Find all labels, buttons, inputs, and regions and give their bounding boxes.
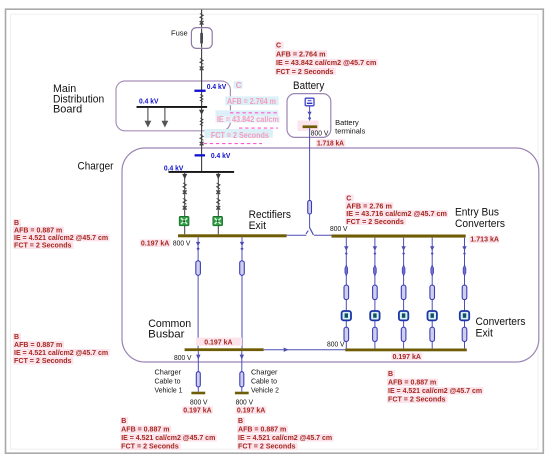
svg-text:B: B	[14, 334, 19, 341]
svg-text:0.197 kA: 0.197 kA	[237, 408, 265, 415]
svg-text:AFB = 2.764 m: AFB = 2.764 m	[276, 51, 326, 58]
0.197 kA label (common busbar)	[196, 338, 242, 346]
svg-text:C: C	[276, 43, 281, 50]
arc flash label B (left upper)	[13, 219, 110, 250]
svg-text:800 V: 800 V	[311, 128, 329, 137]
battery feed wire down into charger box	[309, 128, 311, 200]
rectifier U1 (green charger icon)	[179, 217, 189, 235]
bus tick 0.4 kV (charger incomer)	[195, 154, 205, 156]
battery icon	[305, 98, 314, 106]
arc flash label C (entry bus)	[345, 194, 448, 226]
svg-text:IE = 43.842 cal/cm2 @45.7 cm: IE = 43.842 cal/cm2 @45.7 cm	[276, 60, 376, 67]
svg-text:B: B	[388, 371, 393, 378]
svg-text:0.4 kV: 0.4 kV	[207, 82, 227, 91]
svg-text:AFB = 2.76 m: AFB = 2.76 m	[346, 203, 392, 210]
0.197 kA label (converters exit bus)	[391, 353, 422, 361]
svg-text:800 V: 800 V	[330, 224, 348, 233]
svg-text:0.197 kA: 0.197 kA	[141, 241, 169, 248]
bus tick 0.4 kV (MDB incomer)	[194, 90, 205, 92]
ghost drag label (faded arc-flash label C with selection dashes)	[204, 81, 280, 144]
vehicle 1 terminal bar	[191, 392, 205, 395]
svg-text:Charger: Charger	[78, 161, 114, 173]
svg-text:FCT = 2 Seconds: FCT = 2 Seconds	[121, 444, 179, 451]
vehicle cable 2	[240, 351, 244, 392]
svg-text:0.4 kV: 0.4 kV	[139, 96, 159, 105]
svg-text:Rectifiers: Rectifiers	[249, 209, 292, 221]
svg-text:IE = 4.521 cal/cm2 @45.7 cm: IE = 4.521 cal/cm2 @45.7 cm	[388, 388, 482, 395]
Entry busbar	[332, 235, 466, 238]
Main Distribution Board box	[116, 81, 230, 131]
svg-text:Vehicle 1: Vehicle 1	[155, 386, 183, 395]
battery wire to terminals	[309, 106, 311, 126]
svg-text:IE = 4.521 cal/cm2 @45.7 cm: IE = 4.521 cal/cm2 @45.7 cm	[14, 350, 108, 357]
common bus feed cable 1	[196, 237, 201, 348]
svg-text:Battery: Battery	[293, 80, 325, 92]
Common busbar	[185, 348, 264, 351]
pink highlight behind battery terminal	[298, 121, 319, 132]
0.197 kA label (vehicle 1)	[182, 406, 213, 414]
svg-text:1.718 kA: 1.718 kA	[317, 140, 344, 147]
svg-text:800 V: 800 V	[174, 353, 192, 362]
arc flash label B (left lower)	[13, 333, 110, 365]
svg-text:IE = 4.521 cal/cm2 @45.7 cm: IE = 4.521 cal/cm2 @45.7 cm	[121, 435, 215, 442]
svg-text:Fuse: Fuse	[171, 29, 188, 38]
fuse F1 box	[191, 28, 212, 49]
cable mark between MDB and charger box	[200, 135, 204, 146]
battery feed fuse	[308, 200, 312, 214]
svg-text:800 V: 800 V	[327, 340, 345, 349]
svg-text:Charger: Charger	[251, 368, 278, 377]
svg-text:Converters: Converters	[476, 316, 527, 328]
svg-text:0.197 kA: 0.197 kA	[393, 354, 421, 361]
load feeder arrow below MDB bus (on main line)	[199, 110, 204, 115]
cable mark in MDB lower	[200, 118, 203, 126]
battery 1.718 kA label	[316, 139, 346, 147]
converter branch 2	[370, 238, 379, 349]
svg-text:IE = 4.521 cal/cm2 @45.7 cm: IE = 4.521 cal/cm2 @45.7 cm	[238, 435, 332, 442]
0.197 kA label (rectifiers exit)	[140, 239, 171, 247]
svg-text:AFB = 0.887 m: AFB = 0.887 m	[388, 380, 436, 387]
svg-text:1.713 kA: 1.713 kA	[470, 237, 499, 244]
svg-text:0.4 kV: 0.4 kV	[211, 151, 231, 160]
rectifier U2 (green charger icon)	[213, 217, 223, 235]
svg-text:0.4 kV: 0.4 kV	[164, 163, 184, 172]
svg-text:FCT = 2 Seconds: FCT = 2 Seconds	[276, 69, 334, 76]
svg-text:AFB = 2.764 m: AFB = 2.764 m	[227, 97, 276, 106]
arc flash label B (bottom left)	[120, 417, 217, 451]
svg-text:Vehicle 2: Vehicle 2	[251, 386, 279, 395]
common bus feed cable 2	[240, 237, 245, 348]
svg-text:IE = 4.521 cal/cm2 @45.7 cm: IE = 4.521 cal/cm2 @45.7 cm	[14, 235, 108, 242]
charger subsystem enclosure box	[122, 148, 539, 362]
svg-text:Cable to: Cable to	[251, 377, 277, 386]
MDB load arrow 1	[145, 108, 152, 128]
rectifier cable 2	[216, 173, 221, 217]
charger input busbar 0.4 kV	[169, 171, 235, 173]
svg-text:AFB = 0.887 m: AFB = 0.887 m	[238, 427, 286, 434]
svg-text:AFB = 0.887 m: AFB = 0.887 m	[121, 427, 169, 434]
svg-text:AFB = 0.887 m: AFB = 0.887 m	[14, 342, 62, 349]
svg-text:IE = 43.842 cal/cm: IE = 43.842 cal/cm	[217, 115, 279, 124]
cable mark inside MDB	[200, 95, 203, 103]
svg-text:FCT = 2 Seconds: FCT = 2 Seconds	[238, 444, 296, 451]
1.713 kA label	[469, 236, 499, 244]
arc flash label B (right)	[387, 370, 484, 404]
svg-text:Busbar: Busbar	[148, 328, 185, 340]
rectifier cable 1	[182, 173, 187, 217]
svg-text:FCT = 2 Seconds: FCT = 2 Seconds	[211, 131, 269, 140]
svg-text:B: B	[238, 418, 243, 425]
svg-text:800 V: 800 V	[236, 398, 254, 407]
main feeder wire	[201, 10, 203, 172]
svg-text:IE = 43.716 cal/cm2 @45.7 cm: IE = 43.716 cal/cm2 @45.7 cm	[346, 211, 447, 218]
svg-text:Exit: Exit	[476, 328, 493, 340]
svg-text:FCT = 2 Seconds: FCT = 2 Seconds	[346, 219, 404, 226]
svg-text:FCT = 2 Seconds: FCT = 2 Seconds	[14, 358, 72, 365]
battery tie switch	[310, 228, 314, 235]
svg-text:0.197 kA: 0.197 kA	[204, 339, 232, 346]
vehicle 2 terminal bar	[235, 392, 249, 395]
vehicle cable 1	[196, 351, 200, 392]
svg-text:0.197 kA: 0.197 kA	[183, 408, 211, 415]
svg-text:FCT = 2 Seconds: FCT = 2 Seconds	[388, 397, 446, 404]
svg-text:B: B	[14, 220, 19, 227]
svg-text:Exit: Exit	[249, 220, 266, 232]
svg-text:C: C	[346, 196, 351, 203]
MDB load arrow 2	[162, 108, 169, 128]
svg-text:B: B	[121, 418, 126, 425]
svg-text:Entry Bus: Entry Bus	[455, 207, 500, 219]
svg-text:terminals: terminals	[335, 127, 365, 136]
svg-text:AFB = 0.887 m: AFB = 0.887 m	[14, 228, 62, 235]
Battery box	[287, 94, 331, 138]
svg-text:C: C	[236, 81, 242, 90]
svg-text:Cable to: Cable to	[155, 377, 181, 386]
arc flash label C (battery, solid)	[275, 42, 378, 76]
svg-text:Converters: Converters	[455, 218, 506, 230]
svg-text:800 V: 800 V	[190, 398, 208, 407]
battery terminals bar	[303, 125, 318, 128]
0.197 kA label (vehicle 2)	[236, 406, 267, 414]
converter branch 5	[460, 238, 469, 349]
cable mark on feeder (top)	[200, 14, 204, 25]
MDB busbar 0.4 kV	[137, 106, 208, 108]
tie wires to busbars	[287, 234, 307, 236]
svg-text:FCT = 2 Seconds: FCT = 2 Seconds	[14, 243, 72, 250]
cable mark on feeder (below fuse)	[200, 59, 204, 71]
Converters Exit busbar	[345, 349, 467, 352]
svg-text:Board: Board	[53, 103, 82, 115]
arc flash label B (bottom middle)	[237, 417, 334, 451]
fuse F1 element	[200, 33, 203, 44]
converter branch 3	[399, 238, 408, 349]
converter branch 4	[428, 238, 437, 349]
bus tie wire to converters exit bus	[264, 349, 346, 351]
svg-text:800 V: 800 V	[173, 239, 191, 248]
svg-text:Charger: Charger	[155, 368, 182, 377]
converter branch 1	[342, 238, 351, 349]
Rectifiers Exit busbar	[178, 234, 287, 237]
